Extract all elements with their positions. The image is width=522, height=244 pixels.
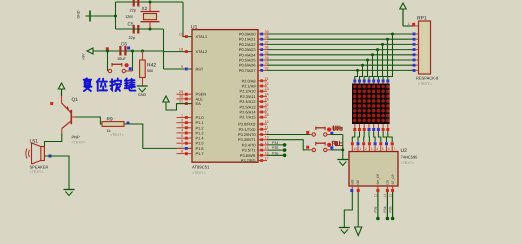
wire +5V reset rail — [93, 50, 164, 52]
transistor Q1 PNP — [62, 96, 86, 144]
speaker LS1 — [26, 139, 49, 175]
pin P0.6/AD6 (33) — [258, 64, 267, 66]
wire matrix column 2 drop — [360, 65, 363, 79]
pin P1.0 (1) — [177, 117, 193, 119]
state square — [330, 132, 333, 135]
wire to RST pin — [164, 68, 193, 70]
junction — [114, 15, 117, 18]
svg-text:PNP: PNP — [72, 135, 81, 140]
pin Q7 (7) — [391, 145, 393, 151]
svg-text:OE: OE — [356, 180, 360, 185]
svg-text:31: 31 — [179, 99, 183, 103]
pin P1.1 (2) — [177, 122, 193, 124]
state square — [379, 142, 382, 145]
capacitor C6 — [117, 42, 127, 62]
svg-text:9: 9 — [181, 65, 183, 69]
pin P1.6 (7) — [177, 147, 193, 149]
wire P3.2 to start button — [267, 134, 312, 136]
pin RP1-8 — [413, 64, 419, 66]
pin stub — [354, 83, 356, 85]
pin RP1-9 — [413, 69, 419, 71]
wire matrix column 7 drop — [383, 39, 387, 79]
wire matrix column 2 to U2 — [359, 124, 361, 132]
state square — [353, 128, 356, 131]
wire Q1 base to R9 — [76, 117, 102, 124]
wire P0.4 net — [267, 54, 413, 56]
wire xtal2 net horizontal — [116, 28, 164, 30]
pin EA (31) — [177, 103, 193, 105]
pin stub — [377, 83, 379, 85]
pin P3.1/TXD (11) — [258, 128, 267, 130]
pin P2.4/A12 (25) — [258, 101, 267, 103]
push button stop — [310, 142, 331, 152]
state square — [374, 142, 377, 145]
pin stub — [363, 83, 365, 85]
wire R9 to P1 pin — [124, 124, 192, 148]
wire matrix column 1 to U2 — [354, 124, 356, 132]
power +5V terminal (above Q1) — [61, 89, 63, 96]
state square — [106, 47, 109, 50]
svg-text:3: 3 — [371, 147, 373, 151]
svg-text:<TEXT>: <TEXT> — [110, 133, 124, 137]
pin P3.6/WR (16) — [258, 154, 267, 156]
wire net P35 — [267, 149, 285, 151]
svg-text:<TEXT>: <TEXT> — [418, 82, 432, 86]
state square — [368, 80, 371, 83]
state square — [330, 146, 333, 149]
label start (red hanzi) — [332, 126, 343, 131]
pin RP1-6 — [413, 54, 419, 56]
pin Q3 (3) — [368, 145, 370, 151]
svg-text:4: 4 — [376, 147, 378, 151]
junction — [386, 38, 389, 41]
state square — [351, 142, 354, 145]
pin Q6 (6) — [386, 145, 388, 151]
svg-text:35: 35 — [265, 51, 269, 55]
svg-text:36: 36 — [265, 46, 269, 50]
svg-text:7: 7 — [181, 144, 183, 148]
svg-text:22: 22 — [265, 82, 269, 86]
svg-text:33: 33 — [265, 61, 269, 65]
state square — [382, 128, 385, 131]
wire matrix column 7 to U2 — [382, 124, 384, 132]
wire U2 pin to ground — [344, 192, 352, 228]
label stop (red hanzi) — [332, 141, 342, 146]
wire xtal1 drop — [183, 2, 192, 37]
svg-text:U2: U2 — [401, 148, 408, 154]
ic U2 74HC595 body — [349, 148, 418, 186]
wire matrix column 4 to U2 — [368, 124, 370, 132]
pin P3.5/T1 (15) — [258, 149, 267, 151]
svg-text:ST_CP: ST_CP — [391, 174, 395, 184]
svg-text:3: 3 — [181, 124, 183, 128]
state square — [382, 80, 385, 83]
pin P2.6/A14 (27) — [258, 111, 267, 113]
junction — [376, 48, 379, 51]
svg-text:24: 24 — [265, 92, 269, 96]
wire matrix column 8 drop — [388, 34, 393, 80]
state square — [50, 102, 53, 105]
svg-text:25: 25 — [265, 98, 269, 102]
svg-text:32: 32 — [265, 66, 269, 70]
svg-text:1: 1 — [407, 22, 409, 26]
wire U2 pin down — [357, 192, 359, 227]
svg-text:EA: EA — [196, 101, 202, 106]
state square — [368, 142, 371, 145]
resistor R9 — [102, 116, 124, 137]
wire matrix column 8 to U2 — [387, 124, 389, 132]
junction — [381, 43, 384, 46]
svg-text:R42: R42 — [147, 63, 156, 69]
svg-text:17: 17 — [265, 157, 269, 161]
svg-text:P0.7/AD7: P0.7/AD7 — [239, 68, 256, 73]
pin RP1-3 — [413, 38, 419, 40]
resistor R42 — [140, 51, 157, 86]
state square — [357, 142, 360, 145]
ground (U2) — [339, 227, 350, 229]
svg-text:19: 19 — [179, 32, 183, 36]
svg-text:<TEXT>: <TEXT> — [72, 140, 86, 144]
svg-text:1k: 1k — [107, 129, 111, 133]
svg-text:18: 18 — [179, 47, 183, 51]
svg-text:12M: 12M — [125, 14, 133, 19]
svg-text:P3.7/RD: P3.7/RD — [241, 158, 256, 163]
mcu U1 AT89C51 body — [191, 24, 258, 175]
state square — [386, 128, 389, 131]
svg-text:<TEXT>: <TEXT> — [401, 161, 415, 165]
wire button right drop — [132, 51, 134, 71]
svg-text:Q1: Q1 — [72, 97, 79, 103]
svg-text:21: 21 — [265, 77, 269, 81]
pin P2.3/A11 (24) — [258, 95, 267, 97]
pin RP1-7 — [413, 59, 419, 61]
wire buttons ground rail — [342, 135, 344, 160]
ground arrow terminal — [355, 227, 362, 236]
wire P0.0 net — [267, 33, 413, 35]
wire to XTAL2 pin — [164, 51, 193, 53]
svg-text:39: 39 — [265, 30, 269, 34]
state square — [306, 131, 309, 134]
pin P2.0/A8 (21) — [258, 80, 267, 82]
wire start button to ground rail — [331, 134, 343, 136]
ground (buttons) — [337, 159, 348, 161]
svg-text:+5V: +5V — [82, 53, 86, 60]
led matrix 8x8 — [352, 84, 390, 125]
pin stub — [373, 83, 375, 85]
pin P0.1/AD1 (38) — [258, 38, 267, 40]
pin stub — [387, 83, 389, 85]
state square — [386, 80, 389, 83]
svg-text:37: 37 — [265, 40, 269, 44]
svg-text:7: 7 — [393, 147, 395, 151]
pin DS (14) net P34 — [383, 180, 390, 220]
wire matrix column 6 drop — [378, 44, 382, 79]
wire matrix column 3 drop — [364, 60, 367, 80]
svg-text:22p: 22p — [130, 8, 137, 13]
svg-text:P34: P34 — [383, 206, 387, 212]
ground (speaker) — [64, 189, 75, 191]
pin Q2 (2) — [363, 145, 365, 151]
pin ST_CP (12) net P35 — [388, 174, 395, 220]
wire matrix column 4 drop — [369, 55, 373, 80]
label reset button text — [84, 78, 136, 91]
svg-text:5: 5 — [382, 147, 384, 151]
wire net P36 — [267, 154, 285, 156]
junction — [341, 148, 344, 151]
svg-text:38: 38 — [265, 35, 269, 39]
state square — [372, 80, 375, 83]
svg-text:MR: MR — [351, 179, 355, 185]
junction R42 top — [141, 50, 144, 53]
svg-text:74HC595: 74HC595 — [401, 155, 419, 160]
svg-text:P36: P36 — [374, 206, 378, 212]
state square — [377, 128, 380, 131]
wire P0.7 net — [267, 69, 413, 71]
svg-text:X2: X2 — [142, 6, 148, 11]
svg-text:34: 34 — [265, 56, 269, 60]
state square — [377, 80, 380, 83]
wire gnd to crystal net — [90, 15, 116, 17]
resistor pack RP1 — [407, 15, 439, 86]
wire matrix column 5 to U2 — [373, 124, 375, 132]
pin stub — [359, 83, 361, 85]
svg-text:10uF: 10uF — [117, 56, 126, 61]
svg-text:13: 13 — [265, 136, 269, 140]
wire xtal left vertical — [115, 2, 117, 29]
svg-text:26: 26 — [265, 103, 269, 107]
svg-text:XTAL1: XTAL1 — [196, 34, 208, 39]
state square — [129, 67, 132, 70]
state square — [368, 128, 371, 131]
push button (reset) — [108, 63, 133, 73]
wire net P34 — [267, 144, 285, 146]
svg-text:P2.7/A15: P2.7/A15 — [239, 115, 255, 120]
pin P2.7/A15 (28) — [258, 116, 267, 118]
pin P3.4/T0 (14) — [258, 144, 267, 146]
pin OE (13) — [356, 180, 360, 192]
svg-text:14: 14 — [265, 141, 269, 145]
svg-text:GND: GND — [138, 93, 147, 97]
svg-text:AT89C51: AT89C51 — [192, 165, 210, 170]
svg-text:P35: P35 — [388, 206, 392, 212]
svg-text:<TEXT>: <TEXT> — [30, 170, 44, 174]
pin SH_CP (11) net P36 — [374, 174, 381, 220]
wire reset vertical to RST — [163, 51, 165, 69]
svg-text:5: 5 — [181, 134, 183, 138]
svg-text:15: 15 — [265, 146, 269, 150]
svg-text:1: 1 — [181, 113, 183, 117]
svg-text:SH_CP: SH_CP — [376, 174, 380, 185]
svg-text:P34: P34 — [272, 141, 278, 145]
state square — [127, 122, 130, 125]
pin P0.2/AD2 (37) — [258, 43, 267, 45]
pin PSEN (29) — [177, 93, 193, 95]
junction — [361, 64, 364, 67]
pin ALE (30) — [177, 98, 193, 100]
push button start — [310, 127, 331, 137]
pin P3.7/RD (17) — [258, 160, 267, 162]
wire matrix column 6 to U2 — [377, 124, 379, 132]
state square — [306, 146, 309, 149]
crystal X2 — [125, 2, 160, 29]
svg-text:GND: GND — [77, 10, 81, 18]
svg-text:12: 12 — [388, 194, 392, 198]
svg-text:23: 23 — [265, 87, 269, 91]
state square — [49, 155, 52, 158]
pin RP1-5 — [413, 49, 419, 51]
svg-text:28: 28 — [265, 113, 269, 117]
svg-text:500: 500 — [147, 69, 153, 73]
pin P0.0/AD0 (39) — [258, 33, 267, 35]
pin P0.4/AD4 (35) — [258, 54, 267, 56]
svg-text:22p: 22p — [129, 35, 136, 40]
svg-text:1: 1 — [359, 147, 361, 151]
state square — [353, 80, 356, 83]
pin P0.7/AD7 (32) — [258, 69, 267, 71]
capacitor C4 (clipped at top) — [130, 0, 140, 13]
state square — [127, 47, 130, 50]
junction — [131, 50, 134, 53]
svg-text:RST: RST — [196, 67, 204, 72]
wire +5V to RP1 pin1 — [403, 25, 413, 27]
pin P1.3 (4) — [177, 132, 193, 134]
wire xtal vertical to chip — [163, 29, 165, 52]
wire Q1 collector to speaker — [45, 133, 62, 147]
wire P0.6 net — [267, 64, 413, 66]
pin stub — [382, 83, 384, 85]
pin P0.5/AD5 (34) — [258, 59, 267, 61]
power +5V terminal (reset) — [82, 48, 94, 60]
pin stub — [368, 83, 370, 85]
svg-text:30: 30 — [179, 95, 183, 99]
junction — [391, 33, 394, 36]
pin P2.5/A13 (26) — [258, 106, 267, 108]
wire P3.3 to stop button — [267, 140, 310, 150]
svg-text:DS: DS — [386, 180, 390, 184]
svg-text:C6: C6 — [121, 42, 127, 47]
power +5V terminal (EA) — [165, 101, 167, 104]
wire P0.1 net — [267, 38, 413, 40]
svg-text:SPEAKER: SPEAKER — [30, 165, 49, 170]
junction — [366, 59, 369, 62]
wire P0.5 net — [267, 59, 413, 61]
pin Q0 (15) — [351, 145, 353, 151]
wire matrix column 1 drop — [355, 70, 358, 79]
junction crystal bottom — [149, 28, 152, 31]
svg-text:6: 6 — [181, 139, 183, 143]
state square — [372, 128, 375, 131]
pin P1.7 (8) — [177, 153, 193, 155]
state square — [358, 80, 361, 83]
power +5V terminal (RP1) — [402, 9, 404, 26]
svg-text:15: 15 — [354, 147, 358, 151]
state square — [363, 80, 366, 83]
wire stop button to ground rail — [331, 149, 343, 151]
state square — [412, 23, 415, 26]
svg-text:P1.7: P1.7 — [196, 151, 204, 156]
pin P1.2 (3) — [177, 127, 193, 129]
ground (below R42) — [137, 86, 148, 97]
svg-text:XTAL2: XTAL2 — [196, 49, 208, 54]
ground terminal (left of crystal) — [77, 10, 91, 21]
pin P3.3/INT1 (13) — [258, 139, 267, 141]
pin P1.5 (6) — [177, 142, 193, 144]
pin Q4 (4) — [374, 145, 376, 151]
svg-text:4: 4 — [181, 129, 183, 133]
pin P0.3/AD3 (36) — [258, 49, 267, 51]
junction — [106, 50, 109, 53]
wire EA to +5V — [166, 102, 192, 111]
pin P3.2/INT0 (12) — [258, 134, 267, 136]
svg-text:10: 10 — [265, 120, 269, 124]
pin RP1-2 — [413, 33, 419, 35]
junction — [356, 69, 359, 72]
wire speaker to ground — [45, 156, 70, 190]
junction crystal top — [149, 1, 152, 4]
wire P0.3 net — [267, 49, 413, 51]
svg-text:2: 2 — [181, 119, 183, 123]
svg-text:8: 8 — [181, 149, 183, 153]
svg-text:11: 11 — [374, 194, 378, 198]
state square — [363, 128, 366, 131]
svg-text:P35: P35 — [272, 146, 278, 150]
svg-text:12: 12 — [265, 131, 269, 135]
svg-text:29: 29 — [179, 90, 183, 94]
wire matrix column 3 to U2 — [363, 124, 365, 132]
svg-text:RESPACK-8: RESPACK-8 — [416, 76, 439, 81]
wire button left drop — [107, 51, 109, 71]
pin Q1 (1) — [357, 145, 359, 151]
capacitor C5 — [128, 22, 140, 40]
svg-text:P36: P36 — [272, 151, 278, 155]
pin P2.1/A9 (22) — [258, 85, 267, 87]
svg-text:27: 27 — [265, 108, 269, 112]
wire P0.2 net — [267, 43, 413, 45]
svg-text:6: 6 — [388, 147, 390, 151]
svg-text:14: 14 — [383, 194, 387, 198]
pin P2.2/A10 (23) — [258, 90, 267, 92]
wire matrix column 5 drop — [374, 50, 378, 80]
state square — [358, 128, 361, 131]
state square — [362, 142, 365, 145]
svg-text:11: 11 — [265, 125, 269, 129]
svg-text:16: 16 — [265, 151, 269, 155]
pin P3.0/RXD (10) — [258, 123, 267, 125]
pin RP1-4 — [413, 43, 419, 45]
state square — [385, 142, 388, 145]
svg-text:2: 2 — [365, 147, 367, 151]
pin MR (10) — [350, 179, 354, 192]
pin P1.4 (5) — [177, 137, 193, 139]
junction — [371, 53, 374, 56]
svg-text:<TEXT>: <TEXT> — [192, 171, 206, 175]
pin Q5 (5) — [380, 145, 382, 151]
wire top xtal1 net — [116, 1, 184, 3]
state square — [391, 142, 394, 145]
